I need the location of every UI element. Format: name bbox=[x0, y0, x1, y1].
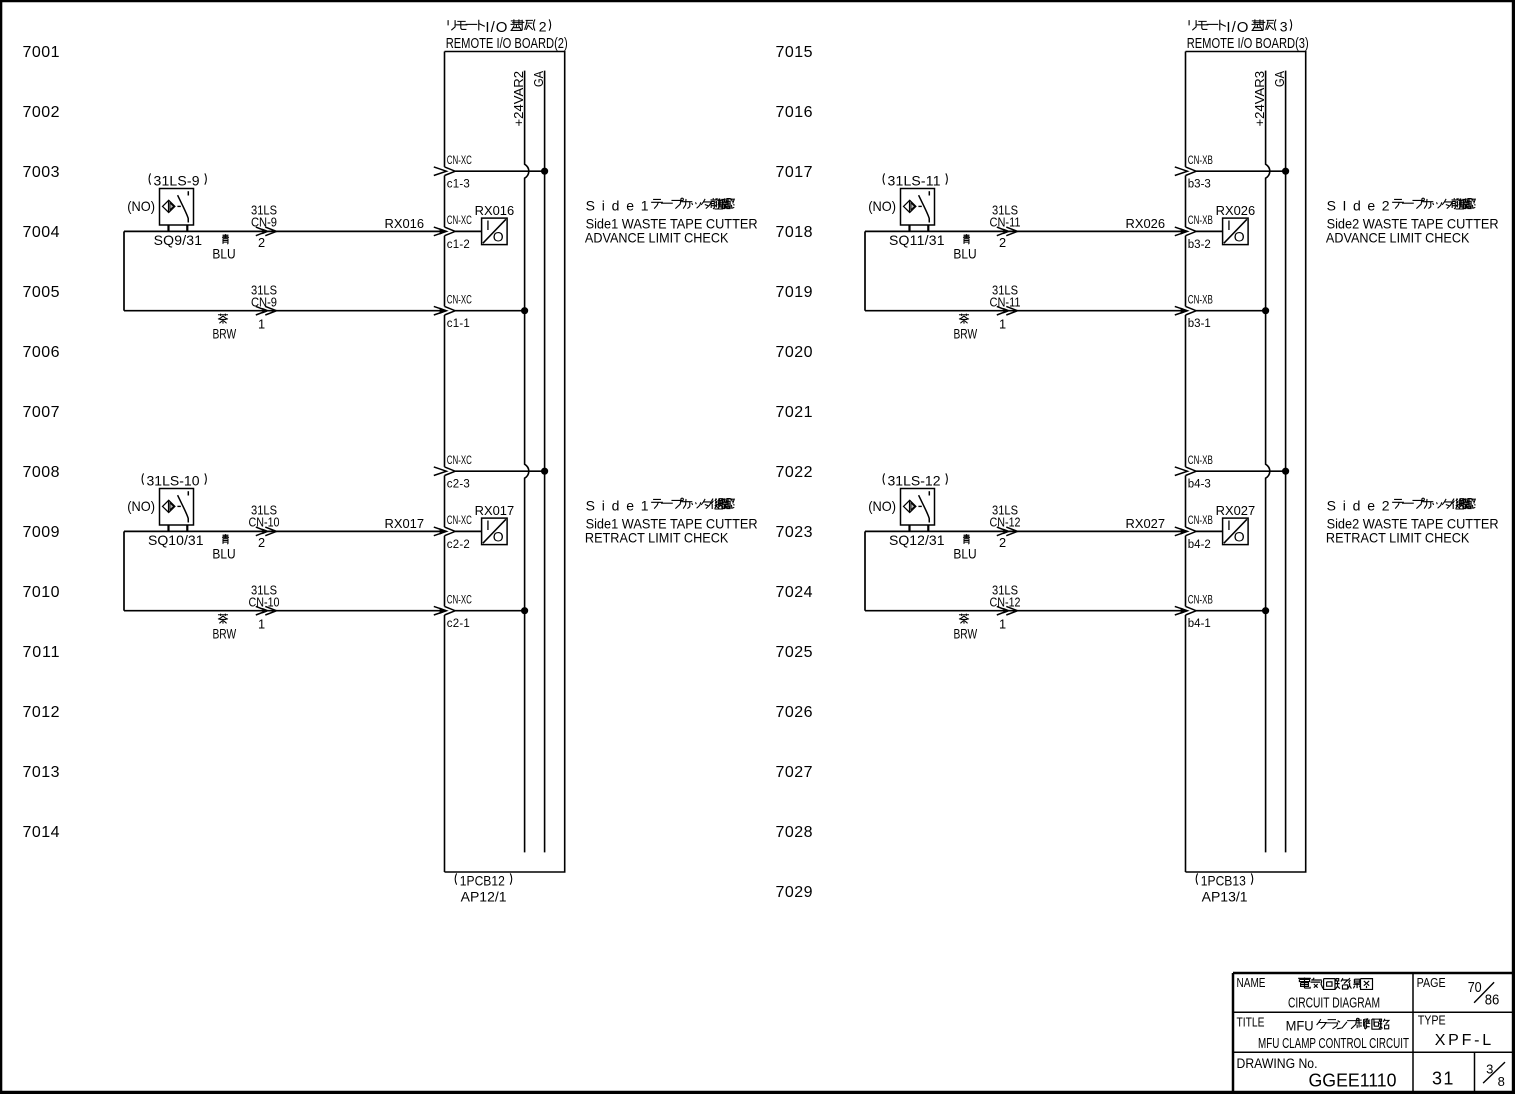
svg-text:7023: 7023 bbox=[776, 524, 813, 541]
connector CN-XC pin c2-2 bbox=[434, 515, 472, 551]
connector CN-XB pin b3-1 bbox=[1175, 295, 1213, 331]
junction b3-3/GA bbox=[1283, 168, 1289, 174]
svg-text:I: I bbox=[486, 517, 490, 533]
svg-text:CN-XC: CN-XC bbox=[447, 595, 472, 607]
svg-text:7029: 7029 bbox=[776, 884, 813, 901]
title block NAME: CIRCUIT DIAGRAM bbox=[1237, 976, 1381, 1012]
svg-text:7025: 7025 bbox=[776, 644, 813, 661]
svg-text:7012: 7012 bbox=[23, 704, 60, 721]
svg-text:c2-1: c2-1 bbox=[447, 618, 470, 630]
svg-text:BLU: BLU bbox=[953, 245, 976, 261]
svg-text:CN-12: CN-12 bbox=[990, 595, 1021, 610]
svg-text:7013: 7013 bbox=[23, 764, 60, 781]
wire SQ10/31 pin2 (CN-10 2) to connector CN-XC c2-2 bbox=[124, 527, 446, 536]
wire label CN-11 pin 2 (BLU) bbox=[953, 203, 1165, 262]
svg-text:CN-11: CN-11 bbox=[990, 295, 1021, 310]
function note: Side1 WASTE TAPE CUTTER RETRACT LIMIT CHECK bbox=[585, 497, 758, 545]
wire label CN-12 pin 2 (BLU) bbox=[953, 503, 1165, 562]
wire SQ10/31 pin1 (CN-10 1) to connector CN-XC c2-1 bbox=[124, 531, 446, 615]
svg-text:CN-XB: CN-XB bbox=[1188, 155, 1213, 167]
svg-text:86: 86 bbox=[1485, 993, 1500, 1009]
svg-text:CN-XB: CN-XB bbox=[1188, 595, 1213, 607]
svg-text:7010: 7010 bbox=[23, 584, 60, 601]
wire SQ9/31 pin2 (CN-9 2) to connector CN-XC c1-2 bbox=[124, 227, 446, 236]
svg-text:31LS-11: 31LS-11 bbox=[888, 173, 941, 189]
svg-text:c2-3: c2-3 bbox=[447, 479, 470, 491]
svg-text:XPF-L: XPF-L bbox=[1435, 1032, 1492, 1049]
svg-text:1: 1 bbox=[999, 617, 1006, 632]
svg-text:8: 8 bbox=[1498, 1074, 1505, 1089]
svg-text:(NO): (NO) bbox=[868, 198, 896, 214]
svg-text:ADVANCE LIMIT CHECK: ADVANCE LIMIT CHECK bbox=[585, 230, 729, 246]
connector CN-XC pin c1-3 bbox=[434, 155, 472, 191]
wire label CN-10 pin 1 (BRW) bbox=[212, 583, 279, 642]
wire label CN-9 pin 2 (BLU) bbox=[212, 203, 424, 262]
wire label CN-11 pin 1 (BRW) bbox=[953, 283, 1020, 342]
svg-text:MFU CLAMP CONTROL CIRCUIT: MFU CLAMP CONTROL CIRCUIT bbox=[1258, 1036, 1409, 1052]
svg-text:(NO): (NO) bbox=[127, 498, 155, 514]
title block sheet 3/8 bbox=[1483, 1061, 1505, 1089]
rung number column 7015-7029 bbox=[776, 44, 813, 901]
limit switch SQ12/31 (31LS-12) bbox=[868, 473, 947, 549]
svg-text:1: 1 bbox=[258, 617, 265, 632]
title block frame bbox=[1233, 973, 1513, 1092]
svg-text:BRW: BRW bbox=[212, 326, 236, 342]
connector CN-XB pin b4-2 bbox=[1175, 515, 1213, 551]
svg-text:1PCB12: 1PCB12 bbox=[460, 873, 505, 889]
svg-text:RX016: RX016 bbox=[475, 203, 515, 218]
board title REMOTE I/O BOARD(3) bbox=[1187, 19, 1309, 53]
svg-text:2: 2 bbox=[258, 235, 265, 250]
connector CN-XC pin c1-2 bbox=[434, 215, 472, 251]
wire CN-XC c1-2 to I/O point bbox=[455, 230, 481, 232]
svg-text:b4-1: b4-1 bbox=[1188, 618, 1211, 630]
connector CN-XB pin b4-1 bbox=[1175, 595, 1213, 631]
connector CN-XC pin c2-1 bbox=[434, 595, 472, 631]
board title REMOTE I/O BOARD(2) bbox=[446, 19, 568, 53]
svg-text:RX027: RX027 bbox=[1216, 503, 1256, 518]
svg-text:1: 1 bbox=[999, 317, 1006, 332]
svg-text:CN-11: CN-11 bbox=[990, 215, 1021, 230]
svg-text:O: O bbox=[1234, 229, 1245, 245]
I/O point RX027 bbox=[1216, 503, 1256, 545]
svg-text:7001: 7001 bbox=[23, 44, 60, 61]
svg-text:TITLE: TITLE bbox=[1237, 1015, 1265, 1029]
svg-text:7008: 7008 bbox=[23, 464, 60, 481]
svg-text:2: 2 bbox=[539, 19, 547, 35]
svg-text:I/O: I/O bbox=[485, 19, 507, 36]
svg-text:2: 2 bbox=[999, 535, 1006, 550]
svg-text:7019: 7019 bbox=[776, 284, 813, 301]
wire CN-XC c1-3 to GA bus bbox=[455, 170, 544, 172]
svg-text:7009: 7009 bbox=[23, 524, 60, 541]
function note: Side1 WASTE TAPE CUTTER ADVANCE LIMIT CHECK bbox=[585, 197, 758, 245]
svg-text:I/O: I/O bbox=[1226, 19, 1248, 36]
svg-text:7003: 7003 bbox=[23, 164, 60, 181]
connector CN-XC pin c2-3 bbox=[434, 455, 472, 491]
wire CN-XB b3-2 to I/O point bbox=[1196, 230, 1222, 232]
svg-text:I: I bbox=[1227, 217, 1231, 233]
svg-text:CN-10: CN-10 bbox=[249, 595, 280, 610]
svg-text:70: 70 bbox=[1468, 980, 1482, 996]
svg-text:7004: 7004 bbox=[23, 224, 60, 241]
wire CN-XC c2-1 to +24VAR2 bus bbox=[455, 610, 524, 612]
limit switch SQ11/31 (31LS-11) bbox=[868, 173, 947, 249]
svg-text:AP12/1: AP12/1 bbox=[461, 888, 507, 904]
svg-text:O: O bbox=[493, 229, 504, 245]
svg-text:CN-10: CN-10 bbox=[249, 515, 280, 530]
wire SQ9/31 pin1 (CN-9 1) to connector CN-XC c1-1 bbox=[124, 231, 446, 315]
board designation (1PCB12) AP12/1 bbox=[455, 873, 512, 905]
I/O point RX026 bbox=[1216, 203, 1256, 245]
svg-text:7026: 7026 bbox=[776, 704, 813, 721]
svg-text:CIRCUIT DIAGRAM: CIRCUIT DIAGRAM bbox=[1288, 996, 1380, 1012]
wire CN-XB b4-3 to GA bus bbox=[1196, 470, 1285, 472]
svg-text:CN-XB: CN-XB bbox=[1188, 215, 1213, 227]
remote I/O board AP12/1 outline bbox=[445, 52, 565, 873]
svg-text:RETRACT LIMIT CHECK: RETRACT LIMIT CHECK bbox=[585, 530, 729, 546]
wire label CN-10 pin 2 (BLU) bbox=[212, 503, 424, 562]
svg-text:BLU: BLU bbox=[953, 545, 976, 561]
svg-text:31LS-10: 31LS-10 bbox=[147, 473, 200, 489]
svg-text:2: 2 bbox=[258, 535, 265, 550]
svg-text:BRW: BRW bbox=[953, 626, 977, 642]
wire SQ11/31 pin1 (CN-11 1) to connector CN-XB b3-1 bbox=[865, 231, 1187, 315]
junction b4-1/+24VAR3 bbox=[1263, 608, 1269, 614]
title block TITLE: MFU CLAMP CONTROL CIRCUIT bbox=[1237, 1015, 1410, 1052]
svg-text:REMOTE I/O BOARD(2): REMOTE I/O BOARD(2) bbox=[446, 35, 568, 52]
net GA vertical bus bbox=[544, 71, 546, 853]
net +24VAR3 vertical bus bbox=[1266, 71, 1270, 853]
svg-text:REMOTE I/O BOARD(3): REMOTE I/O BOARD(3) bbox=[1187, 35, 1309, 52]
svg-text:1PCB13: 1PCB13 bbox=[1201, 873, 1246, 889]
I/O point RX016 bbox=[475, 203, 515, 245]
svg-text:CN-XC: CN-XC bbox=[447, 215, 472, 227]
svg-text:CN-XB: CN-XB bbox=[1188, 515, 1213, 527]
svg-text:b3-3: b3-3 bbox=[1188, 179, 1211, 191]
svg-text:b4-2: b4-2 bbox=[1188, 539, 1211, 551]
wire CN-XB b3-1 to +24VAR3 bus bbox=[1196, 310, 1265, 312]
svg-text:RX026: RX026 bbox=[1126, 216, 1166, 231]
svg-text:b3-1: b3-1 bbox=[1188, 318, 1211, 330]
wire CN-XB b4-2 to I/O point bbox=[1196, 530, 1222, 532]
svg-text:2: 2 bbox=[999, 235, 1006, 250]
svg-text:RX027: RX027 bbox=[1126, 516, 1166, 531]
svg-text:7011: 7011 bbox=[23, 644, 60, 661]
svg-text:CN-9: CN-9 bbox=[251, 295, 277, 310]
svg-text:7020: 7020 bbox=[776, 344, 813, 361]
svg-text:GA: GA bbox=[1272, 71, 1287, 87]
svg-text:O: O bbox=[493, 529, 504, 545]
svg-text:(NO): (NO) bbox=[868, 498, 896, 514]
svg-text:GGEE1110: GGEE1110 bbox=[1309, 1070, 1397, 1090]
svg-text:7006: 7006 bbox=[23, 344, 60, 361]
svg-text:7007: 7007 bbox=[23, 404, 60, 421]
junction c2-1/+24VAR2 bbox=[522, 608, 528, 614]
wire CN-XB b3-3 to GA bus bbox=[1196, 170, 1285, 172]
svg-text:7021: 7021 bbox=[776, 404, 813, 421]
svg-text:I: I bbox=[1227, 517, 1231, 533]
wire CN-XB b4-1 to +24VAR3 bus bbox=[1196, 610, 1265, 612]
svg-text:BLU: BLU bbox=[212, 545, 235, 561]
wire CN-XC c2-2 to I/O point bbox=[455, 530, 481, 532]
title block PAGE 70/86 bbox=[1417, 976, 1500, 1009]
svg-text:1: 1 bbox=[258, 317, 265, 332]
wire SQ12/31 pin1 (CN-12 1) to connector CN-XB b4-1 bbox=[865, 531, 1187, 615]
function note: Side2 WASTE TAPE CUTTER RETRACT LIMIT CHECK bbox=[1326, 497, 1499, 545]
svg-text:+24VAR2: +24VAR2 bbox=[511, 71, 526, 127]
svg-text:BRW: BRW bbox=[212, 626, 236, 642]
board designation (1PCB13) AP13/1 bbox=[1196, 873, 1253, 905]
title block TYPE XPF-L bbox=[1418, 1013, 1492, 1048]
limit switch SQ10/31 (31LS-10) bbox=[127, 473, 206, 549]
svg-text:RX017: RX017 bbox=[385, 516, 425, 531]
svg-text:RX026: RX026 bbox=[1216, 203, 1256, 218]
svg-text:7028: 7028 bbox=[776, 824, 813, 841]
svg-text:(NO): (NO) bbox=[127, 198, 155, 214]
connector CN-XB pin b4-3 bbox=[1175, 455, 1213, 491]
svg-text:c2-2: c2-2 bbox=[447, 539, 470, 551]
svg-text:c1-2: c1-2 bbox=[447, 239, 470, 251]
svg-text:CN-12: CN-12 bbox=[990, 515, 1021, 530]
svg-text:7002: 7002 bbox=[23, 104, 60, 121]
svg-text:CN-XB: CN-XB bbox=[1188, 295, 1213, 307]
svg-text:CN-9: CN-9 bbox=[251, 215, 277, 230]
junction c1-1/+24VAR2 bbox=[522, 308, 528, 314]
limit switch SQ9/31 (31LS-9) bbox=[127, 173, 206, 249]
wire CN-XC c2-3 to GA bus bbox=[455, 470, 544, 472]
net GA vertical bus bbox=[1285, 71, 1287, 853]
svg-text:O: O bbox=[1234, 529, 1245, 545]
wire CN-XC c1-1 to +24VAR2 bus bbox=[455, 310, 524, 312]
svg-text:b4-3: b4-3 bbox=[1188, 479, 1211, 491]
svg-text:SQ9/31: SQ9/31 bbox=[154, 232, 203, 248]
wire SQ11/31 pin2 (CN-11 2) to connector CN-XB b3-2 bbox=[865, 227, 1187, 236]
svg-text:RETRACT LIMIT CHECK: RETRACT LIMIT CHECK bbox=[1326, 530, 1470, 546]
svg-text:I: I bbox=[486, 217, 490, 233]
rung number column 7001-7014 bbox=[23, 44, 60, 841]
svg-text:CN-XC: CN-XC bbox=[447, 155, 472, 167]
svg-text:7016: 7016 bbox=[776, 104, 813, 121]
svg-text:RX017: RX017 bbox=[475, 503, 515, 518]
svg-text:ADVANCE LIMIT CHECK: ADVANCE LIMIT CHECK bbox=[1326, 230, 1470, 246]
connector CN-XB pin b3-3 bbox=[1175, 155, 1213, 191]
svg-text:7017: 7017 bbox=[776, 164, 813, 181]
junction b4-3/GA bbox=[1283, 468, 1289, 474]
svg-text:DRAWING No.: DRAWING No. bbox=[1237, 1056, 1318, 1071]
svg-text:TYPE: TYPE bbox=[1418, 1013, 1446, 1027]
connector CN-XC pin c1-1 bbox=[434, 295, 472, 331]
svg-text:7022: 7022 bbox=[776, 464, 813, 481]
svg-text:7015: 7015 bbox=[776, 44, 813, 61]
svg-text:CN-XB: CN-XB bbox=[1188, 455, 1213, 467]
junction c1-3/GA bbox=[542, 168, 548, 174]
svg-text:MFU: MFU bbox=[1286, 1017, 1314, 1033]
svg-text:+24VAR3: +24VAR3 bbox=[1252, 71, 1267, 127]
svg-text:BRW: BRW bbox=[953, 326, 977, 342]
svg-text:CN-XC: CN-XC bbox=[447, 295, 472, 307]
svg-text:c1-3: c1-3 bbox=[447, 179, 470, 191]
wire label CN-9 pin 1 (BRW) bbox=[212, 283, 277, 342]
svg-text:GA: GA bbox=[531, 71, 546, 87]
svg-text:31LS-9: 31LS-9 bbox=[154, 173, 200, 189]
connector CN-XB pin b3-2 bbox=[1175, 215, 1213, 251]
svg-text:BLU: BLU bbox=[212, 245, 235, 261]
svg-text:7005: 7005 bbox=[23, 284, 60, 301]
svg-text:31LS-12: 31LS-12 bbox=[888, 473, 941, 489]
svg-text:CN-XC: CN-XC bbox=[447, 515, 472, 527]
svg-text:31: 31 bbox=[1432, 1068, 1454, 1088]
svg-text:SQ11/31: SQ11/31 bbox=[889, 232, 945, 248]
svg-text:7014: 7014 bbox=[23, 824, 60, 841]
remote I/O board AP13/1 outline bbox=[1186, 52, 1306, 873]
junction b3-1/+24VAR3 bbox=[1263, 308, 1269, 314]
title block DRAWING No. GGEE1110 bbox=[1237, 1056, 1397, 1090]
svg-text:7024: 7024 bbox=[776, 584, 813, 601]
svg-text:b3-2: b3-2 bbox=[1188, 239, 1211, 251]
svg-text:c1-1: c1-1 bbox=[447, 318, 470, 330]
svg-text:AP13/1: AP13/1 bbox=[1202, 888, 1248, 904]
svg-text:7018: 7018 bbox=[776, 224, 813, 241]
svg-text:SQ10/31: SQ10/31 bbox=[148, 532, 204, 548]
svg-text:NAME: NAME bbox=[1237, 976, 1266, 990]
svg-text:3: 3 bbox=[1280, 19, 1288, 35]
wire label CN-12 pin 1 (BRW) bbox=[953, 583, 1020, 642]
svg-text:RX016: RX016 bbox=[385, 216, 425, 231]
I/O point RX017 bbox=[475, 503, 515, 545]
wire SQ12/31 pin2 (CN-12 2) to connector CN-XB b4-2 bbox=[865, 527, 1187, 536]
net +24VAR2 vertical bus bbox=[525, 71, 529, 853]
svg-text:CN-XC: CN-XC bbox=[447, 455, 472, 467]
junction c2-3/GA bbox=[542, 468, 548, 474]
svg-text:7027: 7027 bbox=[776, 764, 813, 781]
svg-text:PAGE: PAGE bbox=[1417, 976, 1446, 990]
svg-text:SQ12/31: SQ12/31 bbox=[889, 532, 945, 548]
function note: Side2 WASTE TAPE CUTTER ADVANCE LIMIT CHECK bbox=[1326, 197, 1499, 245]
